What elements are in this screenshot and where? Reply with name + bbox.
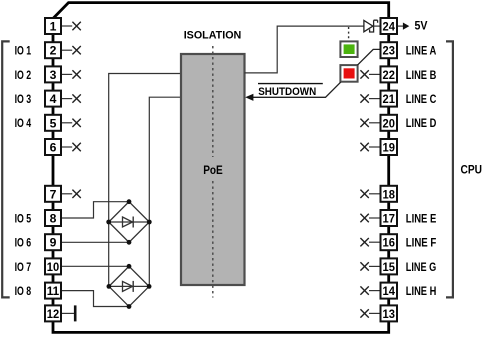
svg-text:24: 24: [383, 20, 396, 34]
CPU group bracket (right): [446, 41, 453, 297]
wire red LED to pin 23: [357, 49, 380, 65]
IO group bracket (left): [2, 41, 10, 297]
svg-text:IO 3: IO 3: [15, 92, 32, 106]
SHUTDOWN wire with arrow into PoE: [245, 82, 341, 101]
svg-text:LINE H: LINE H: [406, 284, 437, 298]
svg-text:20: 20: [383, 116, 396, 130]
5V output arrow: [397, 23, 409, 30]
svg-text:LINE A: LINE A: [406, 44, 437, 58]
svg-text:LINE F: LINE F: [406, 236, 437, 250]
pin 24: [381, 18, 398, 34]
pin 16: [381, 234, 398, 250]
svg-text:IO 1: IO 1: [15, 44, 32, 58]
svg-text:23: 23: [383, 44, 396, 58]
pin 2: [45, 42, 61, 58]
chip body outline: [53, 3, 389, 333]
pin 14: [381, 283, 398, 299]
pin 12 termination stub: [61, 305, 75, 321]
no-connect X pin 21: [360, 94, 380, 102]
pin 12: [45, 305, 61, 321]
pin 3: [45, 66, 61, 82]
pin 18: [381, 186, 398, 202]
svg-text:15: 15: [383, 260, 396, 274]
svg-text:2: 2: [50, 44, 57, 58]
svg-text:7: 7: [50, 187, 57, 201]
svg-text:LINE B: LINE B: [406, 68, 437, 82]
no-connect X pin 15: [360, 262, 380, 270]
pin 7: [45, 186, 61, 202]
no-connect X pin 3: [61, 70, 81, 78]
no-connect X pin 18: [360, 190, 380, 198]
no-connect X pin 4: [61, 94, 81, 102]
pin 17: [381, 210, 398, 226]
svg-text:18: 18: [383, 187, 396, 201]
svg-text:11: 11: [47, 284, 60, 298]
svg-text:5: 5: [50, 116, 57, 130]
pin 19: [381, 139, 398, 155]
svg-text:9: 9: [50, 236, 57, 250]
pin 10: [45, 258, 61, 274]
svg-text:3: 3: [50, 68, 57, 82]
svg-text:1: 1: [50, 20, 57, 34]
wire pin10 to bridge D2 top: [61, 265, 129, 267]
svg-text:SHUTDOWN: SHUTDOWN: [258, 86, 316, 98]
svg-text:IO 5: IO 5: [15, 211, 32, 225]
no-connect X pin 13: [360, 309, 380, 317]
svg-text:10: 10: [47, 260, 60, 274]
wire pin8 to bridge D1 top: [61, 202, 129, 218]
diode bridge D1: [106, 199, 151, 244]
svg-text:IO 7: IO 7: [15, 260, 32, 274]
no-connect X pin 20: [360, 119, 380, 127]
svg-text:IO 8: IO 8: [15, 284, 32, 298]
svg-text:17: 17: [383, 212, 396, 226]
no-connect X pin 7: [61, 190, 81, 198]
green LED indicator: [340, 41, 357, 57]
SHUTDOWN net label (active low): [258, 84, 323, 98]
no-connect X pin 2: [61, 46, 81, 54]
svg-text:6: 6: [50, 141, 57, 155]
svg-text:4: 4: [50, 92, 57, 106]
pin 21: [381, 91, 398, 107]
pin 22: [381, 66, 398, 82]
pin 6: [45, 139, 61, 155]
no-connect X pin 14: [360, 286, 380, 294]
svg-text:LINE G: LINE G: [406, 260, 437, 274]
no-connect X pin 17: [360, 214, 380, 222]
isolation barrier dashed line: [212, 46, 214, 298]
svg-text:IO 6: IO 6: [15, 236, 32, 250]
pin 11: [45, 283, 61, 299]
pin 4: [45, 91, 61, 107]
no-connect X pin 1: [61, 22, 81, 30]
no-connect X pin 16: [360, 238, 380, 246]
wire pin9 to bridge D1 bottom: [61, 241, 129, 243]
wire bridge left rail to PoE input: [109, 74, 181, 287]
svg-text:ISOLATION: ISOLATION: [184, 30, 242, 42]
svg-text:IO 2: IO 2: [15, 68, 32, 82]
svg-text:21: 21: [383, 92, 396, 106]
svg-text:13: 13: [383, 307, 396, 321]
svg-text:5V: 5V: [415, 20, 428, 32]
pin 20: [381, 115, 398, 131]
no-connect X pin 6: [61, 143, 81, 151]
red LED indicator: [340, 65, 357, 82]
pin 15: [381, 258, 398, 274]
PoE converter block: [181, 54, 245, 285]
svg-text:LINE D: LINE D: [406, 116, 437, 130]
svg-text:CPU: CPU: [461, 163, 483, 177]
svg-text:LINE C: LINE C: [406, 92, 437, 106]
svg-text:14: 14: [383, 284, 396, 298]
diode bridge D2: [107, 264, 152, 309]
pin 5: [45, 115, 61, 131]
svg-text:16: 16: [383, 236, 396, 250]
pin 1: [45, 18, 61, 34]
svg-text:19: 19: [383, 141, 396, 155]
pin 13: [381, 305, 398, 321]
pin 8: [45, 210, 61, 226]
no-connect X pin 19: [360, 143, 380, 151]
pin 9: [45, 234, 61, 250]
dashed feed to green LED: [348, 27, 350, 41]
no-connect X pin 22: [360, 70, 380, 78]
wire pin11 to bridge D2 bottom: [61, 291, 129, 307]
svg-text:22: 22: [383, 68, 396, 82]
svg-text:IO 4: IO 4: [15, 116, 32, 130]
svg-text:LINE E: LINE E: [406, 211, 437, 225]
svg-text:12: 12: [47, 307, 60, 321]
schottky diode D3: [364, 20, 381, 32]
pin 23: [381, 42, 398, 58]
no-connect X pin 5: [61, 119, 81, 127]
svg-text:PoE: PoE: [203, 163, 223, 177]
svg-text:8: 8: [50, 212, 57, 226]
wire PoE output to 5V diode: [245, 26, 364, 73]
wire bridge right rail to PoE input: [149, 97, 181, 286]
